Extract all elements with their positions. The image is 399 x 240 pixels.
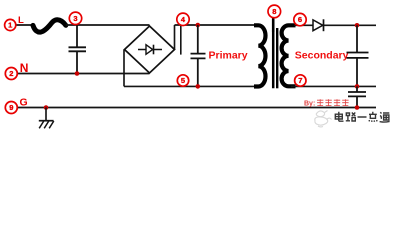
transformer T1 secondary winding	[282, 25, 296, 86]
wire bottom DC rail to node5 and primary winding	[124, 85, 258, 87]
node 8	[268, 5, 281, 18]
node 9	[5, 102, 17, 114]
capacitor C2 stem bottom	[197, 58, 199, 86]
junction dot bottom rail / C3 C4	[355, 84, 360, 89]
svg-text:8: 8	[272, 7, 276, 16]
bridge inner diode triangle	[146, 45, 153, 55]
watermark grey logo	[315, 111, 332, 127]
glyph yi	[358, 116, 367, 118]
bridge inner diode cathode bar	[153, 45, 155, 55]
diode D1 cathode bar	[323, 19, 325, 31]
transformer T1 core line right	[276, 28, 278, 88]
junction dot C1/N	[75, 71, 80, 76]
svg-text:3: 3	[73, 14, 77, 23]
capacitor C4 stem top	[356, 86, 358, 92]
wire L line: fuse to bridge top corner	[66, 24, 150, 26]
wire stub below node 4 (erased segment)	[180, 26, 182, 55]
capacitor C1 plates	[69, 47, 87, 51]
fuse F1 (thick squiggle on L line)	[33, 20, 66, 32]
transformer T1 centre stub from node 8	[272, 17, 275, 32]
transformer T1 core line left	[272, 19, 275, 89]
node 2	[5, 68, 17, 80]
transformer T1 primary winding	[254, 25, 266, 86]
node 1	[5, 19, 16, 30]
svg-text:9: 9	[9, 103, 13, 112]
watermark black CJK title (drawn glyphs)	[335, 112, 389, 122]
wire bridge left corner down (DC minus)	[123, 50, 125, 87]
capacitor C2 stem top	[197, 25, 199, 54]
svg-text:G: G	[20, 97, 28, 109]
capacitor C1 stem bottom to N line	[76, 51, 78, 73]
junction dot top rail / C2	[196, 23, 201, 28]
svg-text:7: 7	[298, 76, 302, 85]
glyph lu	[346, 113, 356, 122]
svg-text:1: 1	[8, 21, 12, 30]
node 6	[294, 13, 306, 25]
junction dot top rail / C3	[355, 23, 360, 28]
capacitor C3 stem bottom	[356, 58, 358, 87]
bridge rectifier BR1 diamond	[125, 26, 175, 73]
glyph dian2	[369, 112, 377, 119]
capacitor C3 plates	[347, 53, 369, 58]
wire L input: node1 to fuse	[16, 24, 33, 26]
svg-text:By:: By:	[304, 100, 315, 107]
svg-text:N: N	[20, 61, 29, 75]
svg-text:Secondary: Secondary	[295, 49, 349, 61]
watermark red CJK glyphs (drawn)	[317, 99, 349, 106]
wire top DC rail to node4 and primary winding	[175, 24, 257, 26]
wire secondary bottom rail	[291, 85, 376, 87]
junction dot G line / C4	[355, 105, 360, 110]
junction dot bottom rail / C2	[196, 84, 201, 89]
junction dot G line / earth	[44, 105, 49, 110]
svg-text:5: 5	[181, 76, 185, 85]
wire G line: node9 to right end	[17, 107, 376, 109]
node 7	[295, 75, 306, 86]
svg-text:6: 6	[298, 15, 302, 24]
wire bridge right corner up (DC plus)	[174, 25, 176, 50]
capacitor C4 stem bottom to G line	[356, 96, 358, 107]
wire secondary top rail with diode to output	[294, 24, 376, 26]
svg-text:L: L	[18, 15, 24, 26]
glyph dian	[335, 112, 343, 121]
node 5	[177, 75, 188, 86]
svg-text:2: 2	[9, 69, 13, 78]
capacitor C2 plates	[191, 54, 206, 59]
glyph tong	[380, 112, 390, 122]
capacitor C3 stem top	[356, 25, 358, 52]
node 3	[69, 12, 81, 24]
bridge inner diode lead	[138, 49, 162, 51]
svg-text:Primary: Primary	[209, 49, 248, 61]
capacitor C4 plates	[348, 92, 366, 96]
capacitor C1 stem top (node3 to plate)	[76, 25, 78, 48]
node 4	[177, 13, 189, 25]
wire N line: node2 to bridge bottom corner	[17, 73, 149, 75]
ground symbol	[39, 108, 54, 129]
diode D1 triangle	[313, 20, 323, 31]
